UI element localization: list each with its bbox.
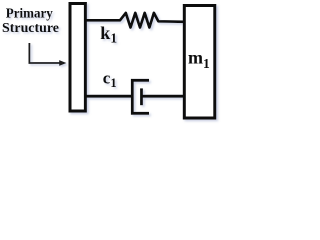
spring k1 wire + zigzag [85,13,184,28]
arrow pointer to wall [29,43,59,63]
damper cylinder (cup) [132,80,149,113]
svg-text:Primary: Primary [6,7,53,22]
mass m1 block [184,6,215,119]
wall (primary structure bar) [70,4,85,112]
svg-text:c1: c1 [103,69,117,90]
svg-text:Structure: Structure [2,21,59,36]
damper piston [140,88,143,105]
damper rod to mass [142,95,185,98]
damper left wire [85,95,132,98]
svg-text:k1: k1 [100,23,117,45]
